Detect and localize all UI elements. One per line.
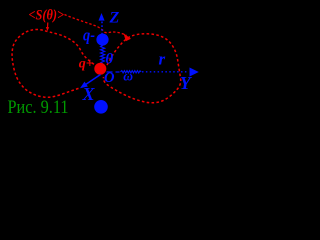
lower blue disc (charge at opposite phase) xyxy=(94,100,108,114)
svg-text:X: X xyxy=(82,84,96,104)
X axis arrowhead xyxy=(80,82,88,89)
Z axis dotted line xyxy=(101,22,103,34)
radiation pattern right lobe (dashed red) xyxy=(103,34,180,103)
leader arrowhead on curve xyxy=(124,33,132,41)
Y axis wave (omega wave) xyxy=(121,71,142,73)
svg-text:ω: ω xyxy=(123,69,133,84)
Y axis arrowhead xyxy=(190,68,199,77)
svg-text:θ: θ xyxy=(105,51,113,67)
short tick from S(theta) label down to left lobe xyxy=(47,23,49,28)
Z axis arrowhead xyxy=(99,13,105,21)
svg-text:r: r xyxy=(159,50,166,69)
svg-text:<S(θ)>: <S(θ)> xyxy=(29,8,65,24)
svg-text:Рис. 9.11: Рис. 9.11 xyxy=(8,97,69,118)
leader line from S(theta) label to pattern (dashed red) xyxy=(65,15,127,36)
radiation pattern left lobe (dashed red) xyxy=(12,30,98,98)
spring between charges xyxy=(101,45,105,64)
X axis line xyxy=(84,75,101,86)
charge q- disc xyxy=(96,34,108,46)
svg-text:Z: Z xyxy=(109,10,120,27)
svg-text:q+: q+ xyxy=(79,57,94,72)
Y axis: dashes near origin xyxy=(107,71,120,73)
svg-text:q-: q- xyxy=(83,26,95,45)
charge q+ disc (red) xyxy=(94,63,106,75)
Y axis dotted line xyxy=(142,71,189,73)
